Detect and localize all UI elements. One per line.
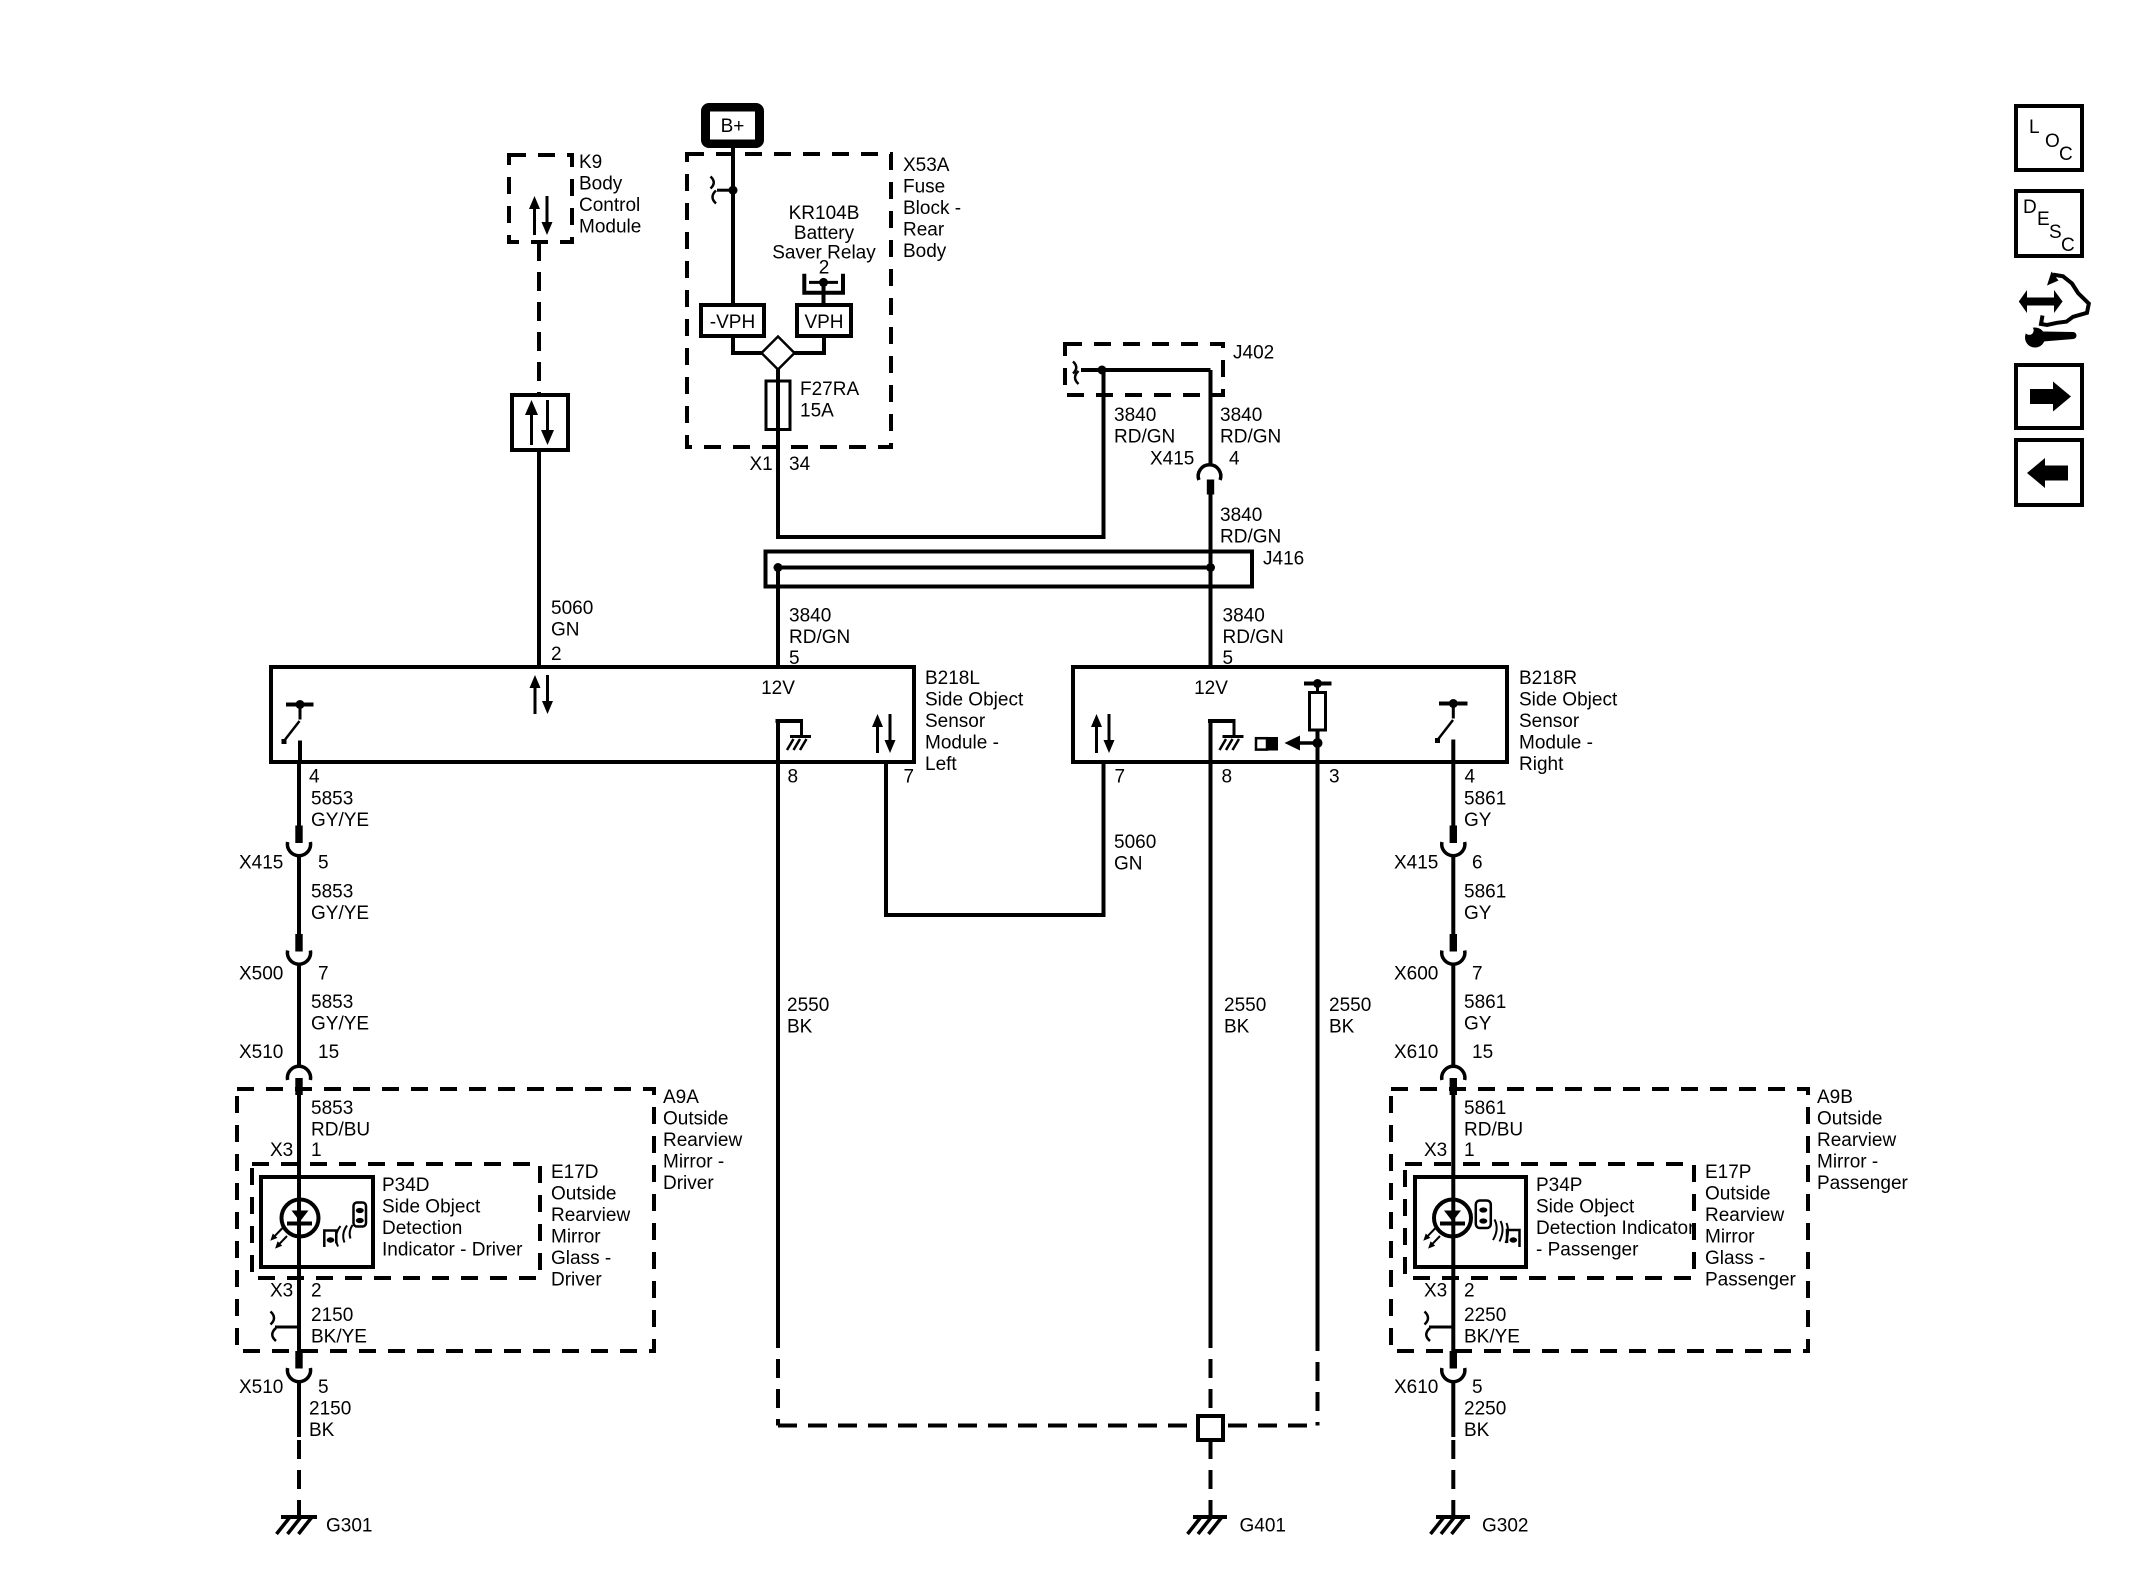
svg-text:X415: X415 [1394, 853, 1438, 874]
svg-text:5853: 5853 [311, 882, 353, 903]
svg-text:X1: X1 [750, 454, 773, 475]
svg-text:Side Object: Side Object [1536, 1197, 1635, 1218]
svg-text:RD/GN: RD/GN [1114, 427, 1175, 448]
wire through P34P [1451, 1177, 1455, 1351]
half connector in J402 [1073, 362, 1079, 385]
wire B218R pin 8 to junction [1209, 762, 1213, 1416]
svg-text:RD/GN: RD/GN [789, 627, 850, 648]
svg-text:3840: 3840 [1220, 505, 1262, 526]
label connector X610 pin 5 [1394, 1377, 1483, 1398]
svg-text:Outside: Outside [1817, 1109, 1882, 1130]
wire K9 to interface box (dashed) [537, 242, 541, 395]
svg-text:Control: Control [579, 195, 640, 216]
icon button LOC [2016, 106, 2082, 170]
svg-text:K9: K9 [579, 152, 602, 173]
label wire 5853 RD/BU [311, 1098, 370, 1141]
svg-text:12V: 12V [1194, 678, 1228, 699]
wire X415-4 to J416 [1209, 495, 1213, 568]
splice pack J402 (dashed box) [1065, 343, 1274, 396]
svg-text:X610: X610 [1394, 1042, 1438, 1063]
svg-text:RD/BU: RD/BU [1464, 1120, 1523, 1141]
label wire 5853 GY/YE (3) [311, 992, 369, 1035]
svg-text:7: 7 [318, 964, 329, 985]
svg-text:Indicator - Driver: Indicator - Driver [382, 1240, 523, 1261]
svg-text:VPH: VPH [804, 312, 843, 333]
wire X510-15 into P34D [297, 1095, 301, 1177]
label connector X415 pin 5 [239, 853, 329, 874]
svg-text:Mirror: Mirror [551, 1227, 601, 1248]
mirror glass E17P Outside Rearview Mirror Glass - Passenger (dashed box) [1405, 1162, 1797, 1291]
svg-text:G301: G301 [326, 1516, 372, 1537]
power feed B+ [701, 103, 764, 148]
svg-text:X415: X415 [239, 853, 283, 874]
inline connector X610-15 [1442, 1066, 1465, 1095]
svg-text:Rear: Rear [903, 220, 945, 241]
wire B218L pin 7 to B218R pin 7 [886, 762, 1104, 915]
svg-text:X500: X500 [239, 964, 283, 985]
svg-text:5: 5 [318, 853, 329, 874]
wire X415-5 to X500-7 [297, 856, 301, 934]
svg-text:E17D: E17D [551, 1162, 599, 1183]
junction dot on B+ feed [729, 186, 738, 195]
svg-text:RD/GN: RD/GN [1223, 627, 1284, 648]
label connector X415 pin 4 [1150, 449, 1240, 470]
svg-text:Mirror -: Mirror - [1817, 1152, 1878, 1173]
svg-text:34: 34 [789, 454, 811, 475]
svg-text:Driver: Driver [551, 1270, 602, 1291]
label wire 3840 RD/GN pin 5 right [1223, 606, 1284, 670]
labels B218R bottom pins [1115, 767, 1476, 788]
wire B+ to -VPH [731, 148, 735, 305]
svg-text:5060: 5060 [1114, 832, 1156, 853]
label wire 2250 BK/YE [1464, 1305, 1520, 1348]
svg-text:G401: G401 [1240, 1516, 1286, 1537]
wire X510-5 to G301 [297, 1382, 301, 1517]
svg-text:Side Object: Side Object [925, 690, 1024, 711]
label connector X3 pin 2 (passenger) [1424, 1281, 1475, 1302]
inline connector X500-7 [287, 934, 310, 964]
svg-text:C: C [2061, 235, 2075, 256]
label relay KR104B Battery Saver Relay [772, 203, 876, 279]
svg-text:2250: 2250 [1464, 1305, 1506, 1326]
label wire 2150 BK [309, 1399, 351, 1442]
svg-text:6: 6 [1472, 853, 1483, 874]
svg-text:X510: X510 [239, 1377, 283, 1398]
terminal box VPH [797, 305, 851, 336]
svg-text:Block -: Block - [903, 198, 961, 219]
svg-text:F27RA: F27RA [800, 379, 859, 400]
svg-text:15: 15 [1472, 1042, 1493, 1063]
svg-text:D: D [2023, 197, 2037, 218]
wire junction to G401 [1209, 1440, 1213, 1517]
svg-text:2550: 2550 [787, 995, 829, 1016]
svg-text:S: S [2049, 222, 2062, 243]
ground junction block [1198, 1416, 1223, 1440]
label connector X510 pin 5 [239, 1377, 329, 1398]
label wire 5861 GY (1) [1464, 789, 1506, 832]
svg-text:B+: B+ [721, 116, 745, 137]
label wire 2550 BK (middle) [1224, 995, 1266, 1038]
inline connector X610-5 [1442, 1351, 1465, 1382]
label connector X610 pin 15 [1394, 1042, 1493, 1063]
svg-text:KR104B: KR104B [789, 203, 860, 224]
svg-text:A9B: A9B [1817, 1087, 1853, 1108]
svg-text:RD/GN: RD/GN [1220, 527, 1281, 548]
svg-text:4: 4 [309, 767, 320, 788]
icon button back arrow [2016, 440, 2082, 505]
label wire 5853 GY/YE (2) [311, 882, 369, 925]
label wire 5861 GY (3) [1464, 992, 1506, 1035]
wire inside J402 [1081, 368, 1211, 372]
svg-text:RD/GN: RD/GN [1220, 427, 1281, 448]
label wire 5060 GN pin 2 [551, 598, 593, 665]
serial data arrows in B218R (pin 7) [1091, 714, 1115, 753]
wire J416 to B218L pin 5 [776, 568, 780, 668]
svg-text:Outside: Outside [1705, 1184, 1770, 1205]
label wire 2550 BK (right) [1329, 995, 1371, 1038]
ground G401 [1188, 1516, 1286, 1537]
label wire 3840 RD/GN above J416 [1220, 505, 1281, 548]
svg-text:15A: 15A [800, 401, 834, 422]
relay KR104B coil terminal [804, 274, 843, 305]
svg-text:5: 5 [318, 1377, 329, 1398]
svg-text:X600: X600 [1394, 964, 1438, 985]
svg-text:Glass -: Glass - [1705, 1248, 1765, 1269]
svg-text:3840: 3840 [1223, 606, 1265, 627]
inline connector X415-4 [1198, 465, 1221, 495]
icon mirror adjust with wrench [2019, 272, 2089, 348]
half connector in A9A [271, 1312, 300, 1342]
svg-text:5861: 5861 [1464, 789, 1506, 810]
label connector X3 pin 1 (passenger) [1424, 1140, 1475, 1161]
svg-text:X3: X3 [270, 1281, 293, 1302]
serial data interface box [512, 395, 568, 450]
svg-text:Mirror -: Mirror - [663, 1152, 724, 1173]
svg-text:BK: BK [1329, 1017, 1355, 1038]
module B218R Side Object Sensor Module - Right [1073, 667, 1618, 775]
svg-text:1: 1 [1464, 1140, 1475, 1161]
svg-text:X3: X3 [1424, 1281, 1447, 1302]
wire B218R pin 4 to X415-6 [1451, 762, 1455, 826]
svg-text:Driver: Driver [663, 1173, 714, 1194]
svg-text:E: E [2037, 209, 2050, 230]
svg-text:Module -: Module - [925, 733, 999, 754]
svg-text:Rearview: Rearview [1817, 1130, 1896, 1151]
svg-text:2550: 2550 [1329, 995, 1371, 1016]
svg-text:BK/YE: BK/YE [311, 1326, 367, 1347]
wire X610-5 to G302 [1451, 1382, 1455, 1517]
svg-text:GY/YE: GY/YE [311, 903, 369, 924]
inline connector X510-5 [287, 1351, 310, 1382]
label connector X510 pin 15 [239, 1042, 339, 1063]
svg-text:Outside: Outside [551, 1184, 616, 1205]
svg-text:Left: Left [925, 754, 957, 775]
wire B218L pin 8 ground run [776, 762, 780, 1426]
splice diamond [762, 337, 795, 370]
svg-text:Battery: Battery [794, 223, 855, 244]
svg-text:C: C [2059, 144, 2073, 165]
svg-text:P34P: P34P [1536, 1175, 1582, 1196]
svg-text:Mirror: Mirror [1705, 1227, 1755, 1248]
svg-text:B218L: B218L [925, 668, 980, 689]
svg-text:BK/YE: BK/YE [1464, 1326, 1520, 1347]
svg-text:GY: GY [1464, 903, 1492, 924]
svg-text:Right: Right [1519, 754, 1564, 775]
fuse block X53A (dashed box) [687, 154, 961, 447]
icon button DESC [2016, 191, 2082, 256]
svg-text:2: 2 [819, 258, 830, 279]
serial data arrows in B218L (pin 2) [530, 675, 554, 714]
label wire 5861 RD/BU [1464, 1098, 1523, 1141]
wire X610-15 into P34P [1451, 1095, 1455, 1177]
svg-text:4: 4 [1465, 767, 1476, 788]
svg-text:Sensor: Sensor [1519, 711, 1580, 732]
wire VPH to diamond [795, 336, 825, 353]
svg-text:5853: 5853 [311, 992, 353, 1013]
svg-text:8: 8 [1222, 767, 1233, 788]
svg-text:- Passenger: - Passenger [1536, 1240, 1639, 1261]
wire -VPH to diamond [733, 336, 762, 353]
fuse F27RA 15A [766, 370, 859, 430]
wire B218R pin 3 to ground bus [1316, 762, 1320, 1426]
svg-text:BK: BK [787, 1017, 813, 1038]
label wire 5060 GN (middle) [1114, 832, 1156, 875]
svg-text:2550: 2550 [1224, 995, 1266, 1016]
svg-text:3840: 3840 [1114, 405, 1156, 426]
svg-text:J402: J402 [1233, 343, 1274, 364]
label wire 2550 BK (left) [787, 995, 829, 1038]
splice pack J416 [766, 549, 1305, 587]
svg-text:7: 7 [1115, 767, 1126, 788]
switch in B218R (pin 4) [1435, 699, 1468, 762]
svg-text:3: 3 [1329, 767, 1340, 788]
svg-text:3840: 3840 [789, 606, 831, 627]
blind spot car icon small (passenger) [1507, 1230, 1520, 1247]
label wire 5853 GY/YE (1) [311, 789, 369, 832]
svg-text:Module: Module [579, 217, 641, 238]
mirror assembly A9B Outside Rearview Mirror - Passenger (dashed box) [1391, 1087, 1909, 1351]
svg-text:4: 4 [1229, 449, 1240, 470]
svg-text:BK: BK [1464, 1420, 1490, 1441]
svg-text:Rearview: Rearview [1705, 1205, 1784, 1226]
LED symbol in P34D [270, 1200, 318, 1249]
svg-text:5060: 5060 [551, 598, 593, 619]
svg-text:X510: X510 [239, 1042, 283, 1063]
label wire 3840 RD/GN left of J402 [1114, 405, 1175, 448]
svg-text:5861: 5861 [1464, 882, 1506, 903]
label connector X3 pin 1 (driver) [270, 1140, 322, 1161]
mirror glass E17D Outside Rearview Mirror Glass - Driver (dashed box) [252, 1162, 630, 1291]
svg-text:5853: 5853 [311, 1098, 353, 1119]
internal ground in B218L (pin 8) [776, 721, 812, 762]
svg-text:X53A: X53A [903, 155, 950, 176]
svg-text:E17P: E17P [1705, 1162, 1751, 1183]
svg-text:5861: 5861 [1464, 992, 1506, 1013]
svg-text:X3: X3 [1424, 1140, 1447, 1161]
svg-text:8: 8 [788, 767, 799, 788]
svg-text:2250: 2250 [1464, 1399, 1506, 1420]
wire interface box to B218L pin 2 [537, 450, 541, 667]
wire X500-7 to X510-15 [297, 964, 301, 1066]
terminal box -VPH [701, 305, 764, 336]
svg-text:GY: GY [1464, 810, 1492, 831]
inline connector X415-6 [1442, 826, 1465, 856]
svg-text:BK: BK [309, 1420, 335, 1441]
svg-text:12V: 12V [761, 678, 795, 699]
svg-text:L: L [2029, 117, 2040, 138]
svg-text:Body: Body [903, 241, 947, 262]
svg-text:Module -: Module - [1519, 733, 1593, 754]
inline connector X415-5 [287, 826, 310, 856]
radar waves (passenger) [1493, 1220, 1508, 1244]
inline connector X600-7 [1442, 934, 1465, 964]
svg-text:Outside: Outside [663, 1109, 728, 1130]
wire J416 to B218R pin 5 [1209, 568, 1213, 668]
labels B218L bottom pins [309, 767, 914, 788]
radar waves (driver) [336, 1225, 353, 1247]
internal ground in B218R (pin 8) [1208, 721, 1244, 762]
label wire 2250 BK [1464, 1399, 1506, 1442]
half connector in X53A [711, 177, 734, 204]
label wire 5861 GY (2) [1464, 882, 1506, 925]
svg-text:Body: Body [579, 174, 623, 195]
svg-text:Side Object: Side Object [1519, 690, 1618, 711]
svg-text:Sensor: Sensor [925, 711, 986, 732]
module K9 Body Control Module (dashed box) [509, 152, 641, 242]
switch in B218L [282, 700, 314, 762]
svg-text:2150: 2150 [311, 1305, 353, 1326]
svg-text:-VPH: -VPH [710, 312, 755, 333]
svg-text:Glass -: Glass - [551, 1248, 611, 1269]
half connector in A9B [1425, 1312, 1454, 1342]
label connector X600 pin 7 [1394, 964, 1483, 985]
svg-text:5: 5 [1472, 1377, 1483, 1398]
svg-text:X610: X610 [1394, 1377, 1438, 1398]
svg-text:A9A: A9A [663, 1087, 699, 1108]
svg-text:G302: G302 [1482, 1516, 1528, 1537]
svg-text:GY: GY [1464, 1014, 1492, 1035]
svg-text:GY/YE: GY/YE [311, 810, 369, 831]
svg-text:Passenger: Passenger [1817, 1173, 1909, 1194]
wire B218L pin 4 to X415-5 [297, 762, 301, 826]
svg-text:15: 15 [318, 1042, 339, 1063]
ground G302 [1431, 1516, 1529, 1537]
svg-text:Detection Indicator: Detection Indicator [1536, 1218, 1695, 1239]
svg-text:7: 7 [904, 767, 915, 788]
svg-text:Fuse: Fuse [903, 177, 945, 198]
svg-text:2: 2 [551, 644, 562, 665]
svg-text:7: 7 [1472, 964, 1483, 985]
svg-text:Passenger: Passenger [1705, 1270, 1797, 1291]
svg-text:Rearview: Rearview [663, 1130, 742, 1151]
svg-text:5861: 5861 [1464, 1098, 1506, 1119]
wire X600-7 to X610-15 [1451, 964, 1455, 1066]
svg-text:2150: 2150 [309, 1399, 351, 1420]
svg-text:GN: GN [1114, 854, 1143, 875]
LED symbol in P34P [1423, 1200, 1471, 1249]
svg-text:3840: 3840 [1220, 405, 1262, 426]
blind spot car icon large (driver) [354, 1203, 367, 1227]
icon button next arrow [2016, 365, 2082, 428]
svg-text:RD/BU: RD/BU [311, 1120, 370, 1141]
wire J402 to connector X415-4 [1209, 370, 1213, 465]
svg-text:P34D: P34D [382, 1175, 430, 1196]
svg-text:O: O [2045, 131, 2060, 152]
label wire 2150 BK/YE [311, 1305, 367, 1348]
svg-text:GY/YE: GY/YE [311, 1014, 369, 1035]
wire through P34D [297, 1177, 301, 1351]
wire X415-6 to X600-7 [1451, 856, 1455, 934]
K9 serial data arrows [529, 196, 553, 235]
resistor and opto branch in B218R (pin 3) [1256, 679, 1332, 762]
svg-text:Side Object: Side Object [382, 1197, 481, 1218]
svg-text:1: 1 [311, 1140, 322, 1161]
label connector X3 pin 2 (driver) [270, 1281, 322, 1302]
ground G301 [277, 1516, 373, 1537]
inline connector X510-15 [287, 1066, 310, 1095]
serial data arrows in B218L (pin 7) [872, 714, 896, 753]
svg-text:2: 2 [1464, 1281, 1475, 1302]
label connector X500 pin 7 [239, 964, 329, 985]
svg-text:X3: X3 [270, 1140, 293, 1161]
label wire 3840 RD/GN pin 5 left [789, 606, 850, 670]
module B218L Side Object Sensor Module - Left [271, 667, 1024, 775]
indicator P34D Side Object Detection Indicator - Driver [261, 1175, 523, 1267]
wire fuse output X1-34 to J402 [778, 370, 1104, 537]
svg-text:J416: J416 [1263, 549, 1304, 570]
svg-text:B218R: B218R [1519, 668, 1577, 689]
indicator P34P Side Object Detection Indicator - Passenger [1415, 1175, 1695, 1267]
svg-text:2: 2 [311, 1281, 322, 1302]
svg-text:Detection: Detection [382, 1218, 462, 1239]
svg-text:GN: GN [551, 620, 580, 641]
mirror assembly A9A Outside Rearview Mirror - Driver (dashed box) [237, 1087, 742, 1351]
svg-text:BK: BK [1224, 1017, 1250, 1038]
label connector X1 pin 34 [750, 454, 811, 475]
svg-text:Rearview: Rearview [551, 1205, 630, 1226]
dashed ground bus horizontal [778, 1424, 1318, 1428]
label wire 3840 RD/GN right of J402 [1220, 405, 1281, 448]
blind spot car icon small (driver) [324, 1231, 336, 1248]
junction dot in J402 [1098, 366, 1107, 375]
svg-text:X415: X415 [1150, 449, 1194, 470]
blind spot car icon large (passenger) [1476, 1201, 1491, 1229]
label connector X415 pin 6 [1394, 853, 1483, 874]
svg-text:5853: 5853 [311, 789, 353, 810]
